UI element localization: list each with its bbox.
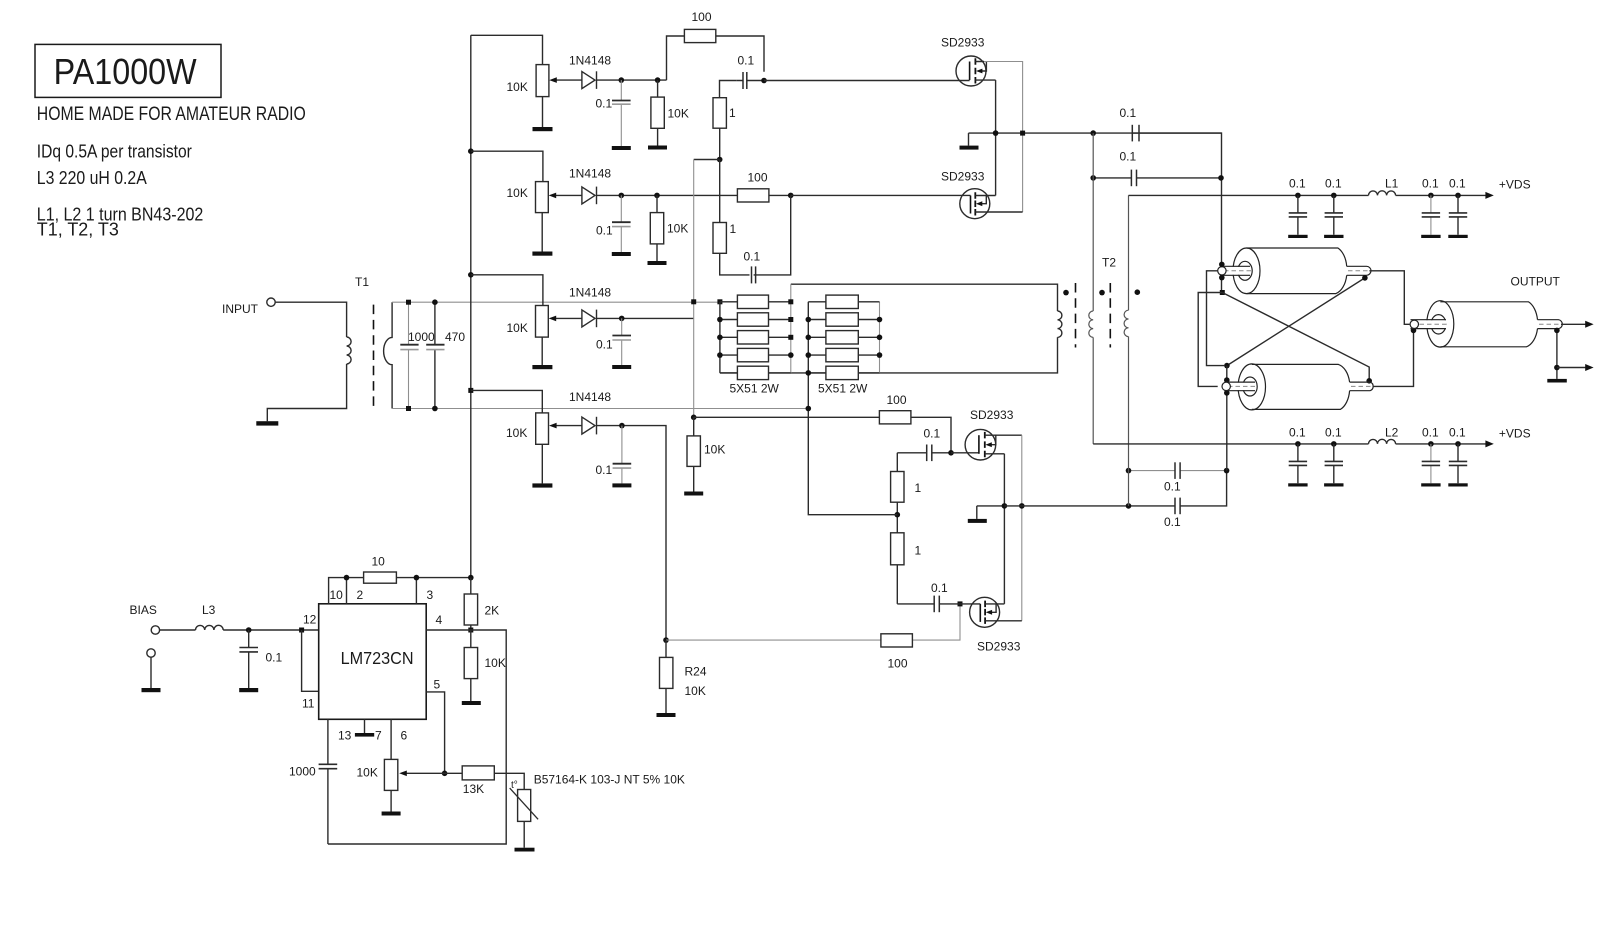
ground BIAS return: [150, 657, 152, 688]
capacitor out coupling 0.1 lower: [1174, 498, 1176, 515]
svg-text:3: 3: [427, 588, 434, 602]
wire INPUT to T1 primary top: [275, 302, 346, 337]
node ch1 gate: [761, 78, 767, 84]
svg-text:1N4148: 1N4148: [569, 390, 611, 404]
wire ch1 gate to Q1: [764, 80, 970, 82]
wire Q4 gate: [960, 603, 980, 605]
capacitor 1000 stub: [408, 302, 410, 408]
node Q1 source junction: [993, 130, 999, 136]
node out coupling upper right: [1224, 468, 1230, 474]
svg-text:0.1: 0.1: [1422, 177, 1439, 191]
svg-text:100: 100: [887, 393, 907, 407]
svg-text:5X51 2W: 5X51 2W: [730, 382, 780, 396]
wire 13K to thermistor: [494, 773, 524, 789]
capacitor ch2 0.1 series: [751, 266, 753, 283]
node TL2 stub top: [1224, 377, 1230, 383]
wire T1 primary bottom to ground: [267, 364, 346, 421]
node bank2 right row4: [877, 352, 883, 358]
node mid bus at T1 top wire: [691, 299, 696, 304]
node bank1 right row1: [788, 299, 793, 304]
coax output transformer TL3 body: [1410, 301, 1563, 347]
node ch4 drop to R100: [663, 637, 669, 643]
node bus to channel3: [468, 272, 474, 278]
capacitor rail2 C 0.1 a: [1288, 426, 1307, 487]
node TL2 stub bottom: [1224, 390, 1230, 396]
wire Q3 gate: [951, 452, 979, 454]
wire pin4: [328, 630, 506, 844]
wire Q1 source down: [995, 80, 997, 195]
node T1 bottom junctions: [406, 406, 411, 411]
svg-text:7: 7: [375, 729, 382, 743]
wire pot P2 to ground: [541, 213, 543, 252]
wire out coupling upper: [1129, 470, 1227, 472]
resistor gate3 100: [879, 411, 911, 424]
svg-text:0.1: 0.1: [1164, 480, 1181, 494]
node output shield mid: [1554, 365, 1560, 371]
svg-text:0.1: 0.1: [596, 224, 613, 238]
node T1 top junctions: [406, 300, 411, 305]
wire bank2 left rail: [807, 302, 809, 373]
node second coupling right: [1218, 175, 1224, 181]
wire ch2 gate to Q2: [791, 194, 971, 196]
svg-text:4: 4: [436, 613, 443, 627]
svg-text:BIAS: BIAS: [130, 603, 157, 617]
ground C3: [612, 365, 631, 369]
svg-text:2: 2: [357, 588, 364, 602]
wire gate3 feed: [694, 417, 951, 453]
node bank2 right row2: [877, 317, 883, 323]
node bank1 right row3: [788, 335, 793, 340]
resistor R24 10K: [665, 640, 667, 713]
node bus to channel2: [468, 148, 474, 154]
wire pot P3 to ground: [541, 337, 543, 365]
svg-text:1: 1: [730, 222, 737, 236]
wire ch1 1 bottom to node159: [719, 128, 721, 159]
capacitor bias 0.1: [248, 630, 250, 688]
wire cap to resistor ch1 1: [720, 81, 737, 98]
node pin4: [468, 628, 473, 633]
wire T3 secondary / T2 left winding: [1092, 133, 1094, 444]
wire pot to ground: [390, 790, 392, 811]
node output stub bottom: [1411, 328, 1417, 334]
wire pot P3 wiper: [555, 317, 582, 319]
svg-text:R24: R24: [685, 665, 707, 679]
transformer T3 core: [1075, 283, 1077, 348]
svg-text:0.1: 0.1: [596, 338, 613, 352]
wire upper VDS rail: [1129, 194, 1487, 196]
potentiometer U1 10K: [406, 772, 445, 774]
node out coupling upper left: [1126, 468, 1132, 474]
svg-text:10K: 10K: [506, 426, 527, 440]
transformer T2 core: [1109, 283, 1111, 348]
capacitor rail1 C 0.1 b: [1324, 177, 1343, 239]
inductor L2: [1369, 439, 1396, 444]
resistor bank1 R 51 row5: [720, 372, 791, 374]
node bank2 left row5: [806, 370, 812, 376]
ground C2: [612, 252, 631, 256]
wire pin10 pin2 top: [329, 578, 364, 604]
wire pot P2 wiper: [555, 194, 582, 196]
diode D1 1N4148: [582, 72, 595, 89]
resistor zobel 1 lower: [896, 515, 898, 604]
node pin3: [414, 575, 420, 581]
resistor 13K: [462, 766, 494, 780]
svg-text:T2: T2: [1102, 256, 1116, 270]
svg-text:PA1000W: PA1000W: [54, 51, 197, 92]
svg-text:0.1: 0.1: [1422, 426, 1439, 440]
wire second coupling: [1093, 177, 1221, 179]
node T2 primary top: [1090, 130, 1096, 136]
wire pot P1 wiper: [556, 79, 582, 81]
capacitor drain coupling 0.1 top: [1131, 125, 1133, 142]
node Q3 gate: [948, 450, 954, 456]
resistor ch2 1: [713, 223, 726, 254]
wire pot P1 to ground: [542, 97, 544, 127]
svg-text:10K: 10K: [357, 766, 378, 780]
svg-text:10K: 10K: [507, 321, 528, 335]
wire TL1 right stub to output: [1369, 271, 1410, 325]
svg-text:LM723CN: LM723CN: [341, 648, 414, 668]
wire bracket TL2 left: [1198, 293, 1222, 387]
wire diode D3 to mid bus: [597, 317, 694, 319]
svg-text:6: 6: [401, 729, 408, 743]
wire L3 to pin12: [223, 629, 319, 631]
resistor pin4 10K: [470, 630, 472, 701]
node bank1 left rail top: [717, 299, 722, 304]
resistor ch2 10K shunt: [656, 195, 658, 261]
node second coupling left: [1090, 175, 1096, 181]
wire output shield down: [1556, 330, 1558, 379]
node ch2 gate: [788, 193, 794, 199]
svg-text:10K: 10K: [485, 656, 506, 670]
node159 junction: [717, 157, 723, 163]
wire bus to pot P1 top: [471, 35, 543, 64]
svg-text:T1, T2, T3: T1, T2, T3: [37, 220, 119, 240]
svg-text:0.1: 0.1: [924, 427, 941, 441]
capacitor C4 0.1 stub: [621, 426, 623, 484]
node TL1 stub top: [1219, 262, 1225, 268]
potentiometer P3 10K: [536, 306, 549, 338]
wire bus to pot P2 top: [471, 151, 543, 181]
resistor ch1 1: [713, 98, 726, 129]
wire bias bus vertical: [470, 35, 472, 577]
svg-text:5: 5: [434, 678, 441, 692]
capacitor 470 stub: [434, 302, 436, 408]
resistor bank2 R 51 row5: [808, 372, 879, 374]
capacitor C4 plates: [613, 463, 632, 465]
node BIAS terminal: [151, 626, 159, 634]
wire pot P4 to ground: [541, 444, 543, 483]
resistor 2K: [470, 578, 472, 630]
node TL1 stub bottom: [1219, 275, 1225, 281]
wire bank1 left rail: [719, 302, 721, 373]
wire diagonal cross B: [1227, 275, 1365, 365]
capacitor rail2 C 0.1 d: [1448, 426, 1467, 487]
svg-text:1000: 1000: [408, 330, 435, 344]
wire Q4 gate chain: [913, 604, 960, 640]
resistor ch2 100 inline: [737, 189, 769, 202]
wire bottom pair ground node: [977, 505, 1005, 507]
ground ch2 10K: [648, 261, 667, 265]
wire ch4 drop to bottom 100: [666, 639, 881, 641]
node T3 phase dot: [1063, 290, 1069, 296]
node Q3 drain junction: [1019, 503, 1025, 509]
diode D3 1N4148: [582, 310, 595, 327]
svg-text:2K: 2K: [485, 604, 500, 618]
wire BIAS to L3: [160, 629, 196, 631]
ground top pair: [968, 133, 970, 146]
resistor bank2 R 51 row1: [808, 301, 879, 303]
resistor bank2 R 51 row3: [808, 336, 879, 338]
wire lower VDS rail: [1093, 443, 1486, 445]
capacitor C2 plates: [612, 221, 631, 223]
svg-text:470: 470: [445, 330, 465, 344]
node diag A bottom: [1366, 378, 1372, 384]
node TL1 braid corner: [1220, 290, 1225, 295]
node bias cap junction: [246, 627, 252, 633]
svg-text:HOME MADE FOR AMATEUR RADIO: HOME MADE FOR AMATEUR RADIO: [37, 104, 306, 125]
wire bank1 right rail = T3 box left: [790, 284, 792, 373]
resistor ch3 shunt 10K: [693, 417, 695, 491]
node ch4 cap junction: [619, 423, 625, 429]
capacitor rail2 C 0.1 c: [1421, 426, 1440, 487]
ground pin7: [364, 719, 366, 733]
capacitor ch1 0.1 series: [736, 80, 764, 82]
wire pot P4 wiper: [556, 425, 582, 427]
svg-text:1N4148: 1N4148: [569, 54, 611, 68]
wire diode D4 to drop: [597, 426, 667, 640]
resistor bank1 R 51 row1: [720, 301, 791, 303]
svg-text:1: 1: [729, 106, 736, 120]
ground ch3 shunt: [684, 492, 703, 496]
svg-text:10K: 10K: [685, 684, 706, 698]
wire ch2 1 to series cap: [720, 195, 791, 275]
transformer T3 box: [720, 284, 1058, 373]
wire T1 secondary top: [392, 301, 720, 303]
svg-text:L1: L1: [1385, 177, 1399, 191]
wire Q3 drain to node: [993, 434, 1021, 436]
T2 left winding coil: [1089, 311, 1093, 337]
transistor Q4 SD2933: [970, 597, 1022, 627]
transformer T1 core: [373, 305, 375, 412]
node bank2 left at T1 wire: [806, 406, 812, 412]
inductor L3: [196, 625, 224, 630]
node bank1 right row2: [788, 317, 793, 322]
node ch1 cap junction: [619, 77, 625, 83]
wire T2 right winding: [1128, 195, 1130, 506]
node Q4 gate: [958, 601, 963, 606]
resistor gate4 100: [881, 634, 913, 647]
transformer T1 secondary winding: [384, 302, 393, 408]
node Q1 drain junction: [1020, 131, 1025, 136]
capacitor C1 plates: [612, 100, 631, 102]
svg-text:B57164-K 103-J NT 5% 10K: B57164-K 103-J NT 5% 10K: [534, 773, 685, 787]
resistor bank1 R 51 row4: [720, 354, 791, 356]
node bank2 right row3: [877, 335, 883, 341]
svg-text:0.1: 0.1: [1289, 177, 1306, 191]
wire node159 to resistor ch2 1: [719, 160, 721, 223]
svg-text:IDq 0.5A per transistor: IDq 0.5A per transistor: [37, 141, 192, 161]
node T2 left phase dot: [1099, 290, 1105, 296]
svg-text:0.1: 0.1: [1289, 426, 1306, 440]
capacitor rail1 C 0.1 a: [1288, 177, 1307, 239]
wire pin11: [302, 630, 319, 691]
svg-text:t°: t°: [511, 780, 518, 791]
svg-text:L2: L2: [1385, 426, 1399, 440]
wire mid bus vertical: [693, 160, 695, 418]
node diag B bottom: [1224, 363, 1230, 369]
node BIAS return terminal: [147, 649, 155, 657]
svg-text:10K: 10K: [507, 80, 528, 94]
wire TL2 right stub to output: [1373, 330, 1414, 386]
wire output node to T2: [1004, 471, 1226, 506]
ground pin4 10K: [462, 701, 481, 705]
coax transformer TL2 body: [1222, 364, 1373, 410]
svg-text:0.1: 0.1: [1449, 426, 1466, 440]
wire Q1 drain to cap node: [984, 62, 1023, 213]
capacitor out coupling 0.1 upper: [1174, 462, 1176, 479]
svg-text:10: 10: [372, 555, 386, 569]
transistor Q1 SD2933: [956, 56, 996, 86]
capacitor drain coupling 0.1 second: [1130, 170, 1132, 187]
node bank1 left row3: [717, 335, 723, 341]
capacitor 1000 plates: [400, 344, 418, 346]
svg-text:T1: T1: [355, 275, 369, 289]
capacitor gate3 0.1 series: [897, 452, 951, 454]
svg-text:10K: 10K: [704, 443, 725, 457]
svg-text:SD2933: SD2933: [977, 640, 1021, 654]
svg-text:5X51 2W: 5X51 2W: [818, 382, 868, 396]
svg-text:10K: 10K: [667, 222, 688, 236]
node bank2 left row3: [806, 335, 812, 341]
wire ch1 node up and over: [667, 36, 765, 80]
svg-text:SD2933: SD2933: [941, 36, 985, 50]
ground pot P4: [532, 483, 552, 487]
node bank2 left row4: [806, 352, 812, 358]
transistor Q2 SD2933: [960, 189, 1023, 219]
svg-text:0.1: 0.1: [744, 250, 761, 264]
svg-text:SD2933: SD2933: [941, 170, 985, 184]
svg-text:1: 1: [915, 481, 922, 495]
ground ch1 10K: [648, 146, 667, 150]
svg-text:0.1: 0.1: [738, 53, 755, 67]
svg-text:1000: 1000: [289, 765, 316, 779]
wire bracket TL1 left: [1207, 271, 1225, 366]
wire 10 to bus: [396, 578, 470, 604]
svg-text:0.1: 0.1: [266, 651, 283, 665]
resistor bank1 R 51 row2: [720, 319, 791, 321]
svg-text:13K: 13K: [463, 782, 484, 796]
svg-text:0.1: 0.1: [1164, 515, 1181, 529]
svg-text:0.1: 0.1: [1120, 106, 1137, 120]
svg-text:100: 100: [888, 657, 908, 671]
ground C4: [612, 483, 631, 487]
transformer T3 primary winding: [1058, 311, 1062, 337]
wire diode D2 to 100: [597, 194, 738, 196]
svg-text:0.1: 0.1: [596, 97, 613, 111]
wire Q3 source down: [1003, 454, 1005, 604]
wire bank2 rail to zobel mid: [808, 373, 897, 515]
node bank1 left row2: [717, 317, 723, 323]
svg-text:INPUT: INPUT: [222, 302, 259, 316]
resistor bank1 R 51 row3: [720, 336, 791, 338]
wire ch2 100 to gate node: [769, 194, 791, 196]
svg-text:0.1: 0.1: [1449, 177, 1466, 191]
capacitor rail2 C 0.1 b: [1324, 426, 1343, 487]
ground bottom pair: [976, 506, 978, 519]
op-amp U1 LM723CN box: [319, 604, 427, 720]
node ch2 10K junction: [654, 193, 660, 199]
ground R24: [657, 713, 676, 717]
capacitor C3 0.1 stub: [621, 318, 623, 365]
svg-text:10K: 10K: [668, 107, 689, 121]
svg-text:+VDS: +VDS: [1499, 427, 1531, 441]
node T2 right phase dot: [1135, 289, 1141, 295]
transistor Q3 SD2933: [965, 429, 1004, 460]
node bank1 right row4: [788, 352, 794, 358]
svg-text:1: 1: [915, 544, 922, 558]
resistor bank2 R 51 row4: [808, 354, 879, 356]
ground output shield: [1547, 379, 1567, 383]
ground C1: [612, 146, 631, 150]
wire bus to pot P4 top: [471, 390, 543, 413]
node zobel mid: [895, 512, 901, 518]
svg-text:L3: L3: [202, 603, 216, 617]
node pin5 junction: [442, 771, 448, 777]
wire into TL1 left stub: [1221, 265, 1223, 293]
node pin11 tie: [299, 628, 304, 633]
resistor zobel 1 upper: [896, 453, 898, 515]
capacitor gate4 0.1 series: [897, 603, 960, 605]
node output shield top: [1554, 328, 1560, 334]
wire pot to pin6: [390, 719, 392, 759]
wire thermistor to ground: [523, 821, 525, 847]
node pin2: [344, 575, 350, 581]
svg-text:10: 10: [330, 588, 344, 602]
diode D4 1N4148: [582, 417, 595, 434]
svg-text:+VDS: +VDS: [1499, 178, 1531, 192]
potentiometer P4 10K: [536, 413, 549, 444]
svg-text:1N4148: 1N4148: [569, 167, 611, 181]
ground bias cap: [239, 688, 258, 692]
svg-text:L3 220 uH 0.2A: L3 220 uH 0.2A: [37, 168, 147, 188]
resistor U1 10: [364, 572, 397, 583]
svg-text:100: 100: [748, 171, 768, 185]
ground thermistor: [515, 848, 535, 852]
diode D2 1N4148: [582, 187, 595, 204]
node ch2 cap junction: [619, 193, 625, 199]
wire TL2 center vertical: [1226, 366, 1228, 471]
capacitor rail1 C 0.1 c: [1421, 177, 1440, 239]
svg-text:0.1: 0.1: [1325, 177, 1342, 191]
wire bus to pot P3 top: [471, 275, 543, 306]
node T2 right winding bottom: [1126, 503, 1132, 509]
svg-text:0.1: 0.1: [1120, 150, 1137, 164]
ground pot P1: [533, 127, 553, 131]
node bank1 left row4: [717, 352, 723, 358]
node diag B top: [1362, 275, 1368, 281]
svg-text:11: 11: [302, 697, 315, 711]
svg-text:12: 12: [303, 613, 317, 627]
node bus to channel4: [468, 388, 473, 393]
capacitor rail1 C 0.1 d: [1448, 177, 1467, 239]
capacitor C3 plates: [612, 335, 631, 337]
wire diode D1 to node: [597, 79, 667, 81]
wire top pair ground node: [969, 132, 1222, 134]
wire T1 secondary bottom: [392, 408, 808, 410]
wire node159 to mid bus: [694, 159, 720, 161]
svg-text:0.1: 0.1: [931, 581, 948, 595]
